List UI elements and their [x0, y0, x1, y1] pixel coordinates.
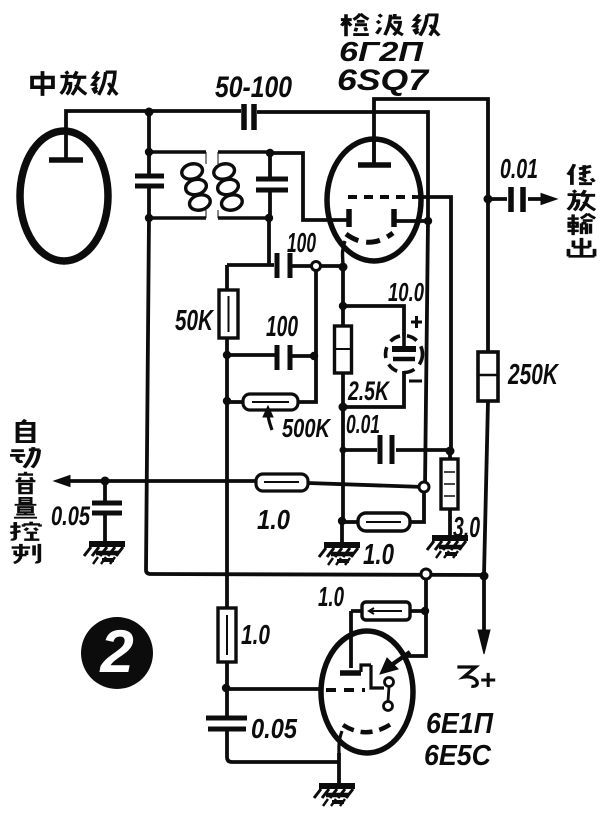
resistor 250K — [478, 352, 498, 401]
wire AVC line left with cap node — [62, 479, 256, 483]
resistor 50K — [219, 290, 238, 338]
wire coupling cap to detector diode drop — [257, 112, 428, 221]
node 0.01 to 3.0 — [446, 447, 455, 456]
wire output coupling row y199 — [488, 197, 543, 201]
label di-fang-shu-chu LF output — [568, 164, 594, 185]
tube V2 cathode lead — [343, 241, 346, 266]
wire eye plate lead drop — [349, 611, 353, 668]
svg-text:0.01: 0.01 — [500, 153, 538, 184]
ground detector cathode — [319, 545, 360, 565]
wire grid line of detector to 3.0 node — [414, 197, 451, 451]
tube V2 diode plate left — [346, 209, 352, 227]
capacitor C 0.05 bottom — [206, 718, 247, 729]
node 2.5K bottom — [339, 403, 348, 412]
ground AVC — [84, 544, 125, 564]
node open ring AVC-diode — [419, 482, 429, 492]
svg-text:1.0: 1.0 — [363, 539, 394, 571]
node eye grid — [222, 684, 230, 692]
capacitor electrolytic 10.0 — [386, 336, 423, 373]
svg-text:1.0: 1.0 — [241, 619, 270, 650]
tube V2 grid dashes — [348, 195, 415, 199]
wire top rail from V1 plate to coupling cap — [66, 111, 241, 160]
wire B+ feed down from 250K — [484, 401, 488, 633]
wire 250K upper lead — [486, 199, 490, 352]
wire 1uF eye resistor left lead and ground lead — [340, 521, 344, 542]
label jian-bo-ji detector stage — [341, 14, 369, 37]
node output tap — [484, 195, 493, 204]
capacitor C 100 lower — [277, 345, 290, 370]
label zi-dong-yin-liang-kong-zhi AVC — [18, 420, 34, 442]
tube V2 detector envelope — [327, 139, 421, 261]
capacitor C 0.05 AVC — [92, 503, 122, 513]
tube V3 eye gap circles — [385, 678, 394, 687]
wire 50K branch top corner — [225, 265, 229, 290]
resistor 3.0 — [441, 459, 458, 509]
tube V1 plate — [49, 157, 83, 163]
wire cathode node down to 2.5K — [341, 267, 345, 407]
node top rail junction — [145, 108, 154, 117]
resistor 2.5K — [335, 326, 352, 373]
wire tank secondary rails — [218, 152, 270, 218]
svg-text:6E1П: 6E1П — [426, 708, 494, 740]
inductor L2 secondary coil — [217, 152, 219, 218]
potentiometer 500K — [243, 394, 298, 410]
node AVC cap — [101, 477, 110, 486]
svg-text:500K: 500K — [282, 413, 332, 443]
wire AVC line right portion to open node — [308, 483, 424, 487]
svg-text:0.05: 0.05 — [51, 501, 91, 531]
tube V1 IF amp envelope — [20, 131, 108, 261]
ground eye cathode — [314, 786, 355, 806]
label yi B+ — [457, 667, 477, 686]
wire tank bottom long drop to B+ rail — [146, 218, 484, 575]
capacitor C 0.01 mid — [380, 435, 392, 464]
node open ring B+ rail — [421, 569, 431, 579]
wire AVC cap 0.05 leads — [103, 481, 107, 542]
svg-text:2.5K: 2.5K — [347, 376, 391, 406]
wire eye 1.0 left lead — [342, 520, 358, 524]
label zhong-fang-ji IF stage — [32, 71, 53, 96]
capacitor C 0.01 output — [511, 187, 523, 212]
capacitor tank secondary — [256, 179, 288, 190]
svg-text:250K: 250K — [507, 359, 559, 391]
wire detector plate top run to 250K line — [374, 99, 488, 199]
svg-text:0.01: 0.01 — [346, 409, 380, 439]
svg-text:0.05: 0.05 — [251, 713, 297, 744]
node tank top — [145, 148, 153, 156]
node B+ rail — [480, 572, 489, 581]
wire x315 vertical open-node to pot — [298, 266, 316, 402]
resistor 1.0 cathode — [358, 513, 410, 531]
tube V3 cathode arc — [343, 724, 391, 732]
wire eye 1.0 row y611 — [351, 609, 425, 613]
svg-text:1.0: 1.0 — [257, 504, 290, 535]
node 1uF eye left — [338, 517, 346, 525]
capacitor C 100 upper — [277, 253, 290, 278]
wire V1 tank left vertical (x148) — [147, 112, 151, 218]
wire tank primary rails — [149, 152, 206, 218]
wire secondary bottom to 100pF row — [267, 218, 271, 265]
tube V3 ray electrode L — [371, 665, 384, 688]
output arrow — [541, 197, 545, 201]
capacitor tank primary — [135, 176, 164, 186]
wire 10uF bottom branch — [343, 371, 404, 407]
wire 10uF top branch y306 — [343, 306, 404, 336]
tube V2 diode plate right — [391, 209, 397, 227]
capacitor C 50-100 coupling — [244, 104, 254, 130]
tube V2 plate — [358, 162, 391, 168]
svg-text:6SQ7: 6SQ7 — [337, 64, 430, 97]
svg-text:1.0: 1.0 — [318, 581, 344, 612]
ground 3.0 — [427, 538, 468, 558]
node 100pF x315 — [310, 352, 318, 360]
resistor 1.0 vertical — [218, 608, 236, 662]
wire secondary top to detector left diode — [270, 153, 347, 220]
tube V2 cathode arc — [346, 233, 393, 242]
wire eye grid row y689 — [226, 687, 323, 691]
tube V3 grid dashes — [326, 688, 365, 692]
node right diode — [424, 217, 432, 225]
svg-text:50K: 50K — [175, 305, 214, 337]
node cathode 100pF — [339, 263, 348, 272]
svg-text:6Г2П: 6Г2П — [339, 36, 424, 67]
wire 100pF row y265 — [227, 265, 343, 266]
svg-text:50-100: 50-100 — [215, 71, 292, 104]
node eye 1.0 right — [421, 607, 429, 615]
node tank bottom — [145, 214, 153, 222]
tube V3 ray arrow — [390, 652, 410, 666]
wire pot left end — [227, 400, 243, 404]
wire 3.0 resistor leads and ground lead — [448, 451, 452, 536]
svg-text:6E5C: 6E5C — [424, 740, 492, 772]
wire secondary cap vertical — [268, 153, 272, 218]
wire 100pF second row y355 — [227, 355, 314, 356]
wire 50K to junctions — [225, 338, 229, 608]
svg-text:2: 2 — [99, 618, 133, 685]
badge number 2 — [81, 617, 153, 689]
wire 2.5K bottom down to 1uF node — [341, 407, 345, 521]
wire bottom 1.0 to 0.05 and corner to cathode — [227, 662, 339, 762]
node 0.01 left — [340, 447, 347, 454]
inductor L1 primary coil — [205, 152, 207, 218]
wire eye 1.0 loop right side — [410, 487, 424, 522]
node pot left — [223, 397, 231, 405]
tube V3 magic eye envelope — [321, 631, 413, 753]
svg-text:3.0: 3.0 — [453, 512, 480, 544]
wire eye cathode drop to ground — [337, 753, 341, 784]
svg-text:100: 100 — [266, 311, 298, 343]
wire 0.01 mid row y450 — [343, 448, 449, 452]
wire eye ray electrode feed — [407, 574, 426, 656]
resistor 1.0 eye plate — [362, 602, 410, 620]
node 10uF top — [339, 302, 347, 310]
node 50K bottom — [223, 351, 231, 359]
wire right diode line down to AVC node — [425, 221, 428, 487]
tube V3 target plate — [340, 670, 361, 676]
resistor 1.0 AVC — [256, 474, 308, 491]
node open ring 100pF row — [312, 262, 321, 271]
node secondary bottom — [265, 214, 273, 222]
svg-text:+: + — [480, 664, 496, 695]
AVC arrow left — [54, 476, 70, 487]
svg-text:100: 100 — [287, 227, 316, 258]
node secondary top — [266, 149, 274, 157]
wire right diode to drop line — [394, 219, 428, 223]
svg-text:10.0: 10.0 — [388, 277, 424, 307]
tube V3 cathode lead — [339, 731, 342, 755]
arrow B+ down — [478, 630, 490, 654]
